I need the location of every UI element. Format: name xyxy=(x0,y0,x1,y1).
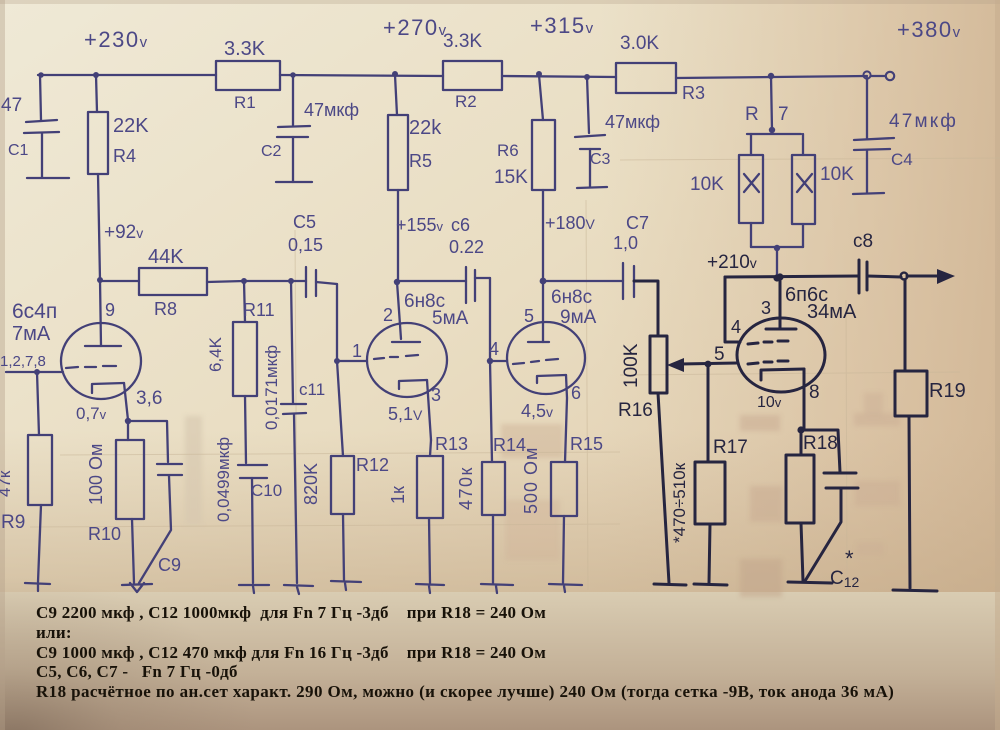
svg-text:0,0499мкф: 0,0499мкф xyxy=(214,437,233,522)
svg-text:+155v с6: +155v с6 xyxy=(396,215,470,235)
svg-text:1: 1 xyxy=(352,341,362,361)
resistor R4 xyxy=(88,75,149,280)
svg-text:R19: R19 xyxy=(929,380,966,402)
svg-text:0,15: 0,15 xyxy=(288,235,323,255)
svg-text:3,6: 3,6 xyxy=(136,388,162,409)
node R8 right xyxy=(241,278,247,284)
svg-text:8: 8 xyxy=(809,382,820,403)
ground R18 C12 xyxy=(788,582,832,583)
U2 cathode pin 3 xyxy=(388,380,441,440)
svg-text:22k: 22k xyxy=(409,117,442,139)
svg-text:5: 5 xyxy=(524,306,534,326)
svg-text:0.22: 0.22 xyxy=(449,237,484,257)
node C3 tap xyxy=(584,74,590,80)
svg-text:34мА: 34мА xyxy=(807,301,857,323)
ground R19 xyxy=(893,590,937,591)
wire U4 grid pin 5 with wiper arrow xyxy=(667,344,737,372)
svg-text:C5: C5 xyxy=(293,212,316,232)
U2 grid pin 1 xyxy=(352,341,418,361)
svg-text:470к: 470к xyxy=(456,466,476,510)
ground R15 xyxy=(549,584,582,592)
svg-text:С9 1000 мкф , С12 470 мкф для: С9 1000 мкф , С12 470 мкф для Fn 16 Гц -… xyxy=(36,643,546,662)
svg-text:6с4п: 6с4п xyxy=(12,300,57,323)
wire U2 plate to C6 xyxy=(397,280,466,282)
node C11 tap xyxy=(288,278,294,284)
resistor R17 xyxy=(695,364,748,583)
capacitor C11 xyxy=(262,281,325,583)
svg-text:С5, С6, С7 - Fn 7 Гц -0дб: С5, С6, С7 - Fn 7 Гц -0дб xyxy=(36,662,238,681)
capacitor C8 xyxy=(853,231,901,293)
svg-text:R17: R17 xyxy=(713,437,748,458)
wire top rail segment 1 xyxy=(38,74,216,76)
wire output arrow xyxy=(907,269,955,284)
U4 plate pin 3 xyxy=(761,273,796,329)
svg-text:0,0171мкф: 0,0171мкф xyxy=(262,345,281,430)
wire U3 plate to C7 xyxy=(543,280,623,282)
node U1 cathode xyxy=(125,418,131,424)
svg-text:R12: R12 xyxy=(356,455,389,475)
capacitor C9 xyxy=(128,421,182,583)
svg-text:10K: 10K xyxy=(690,174,724,195)
capacitor C4 xyxy=(853,78,958,194)
wire top rail segment 2 xyxy=(280,75,443,76)
svg-text:6: 6 xyxy=(571,383,581,403)
svg-text:7: 7 xyxy=(778,104,789,125)
svg-text:4: 4 xyxy=(731,317,741,337)
svg-text:R18 расчётное по ан.сет характ: R18 расчётное по ан.сет характ. 290 Ом, … xyxy=(36,682,894,701)
svg-text:или:: или: xyxy=(36,623,72,642)
ground R14 xyxy=(481,584,513,593)
node C4 tap xyxy=(863,71,870,78)
svg-text:R1: R1 xyxy=(234,93,256,112)
ground R10 C9 xyxy=(122,583,152,592)
svg-text:15K: 15K xyxy=(494,167,528,188)
U1 cathode pins 3,6 xyxy=(76,383,162,423)
svg-text:C9: C9 xyxy=(158,555,181,575)
node R4 tap xyxy=(93,72,99,78)
node U4 cathode xyxy=(797,426,804,433)
svg-text:10v: 10v xyxy=(757,394,782,411)
ground R13 xyxy=(416,584,444,593)
svg-text:9мА: 9мА xyxy=(560,307,597,328)
wire top rail segment 4 xyxy=(676,76,867,78)
capacitor C1 xyxy=(1,75,69,178)
svg-text:R15: R15 xyxy=(570,434,603,454)
svg-text:47к: 47к xyxy=(0,470,14,497)
resistor R9 xyxy=(0,372,52,582)
wire C7 to R16 xyxy=(634,281,658,336)
node R6 tap xyxy=(536,71,542,77)
svg-text:6н8с: 6н8с xyxy=(551,287,592,308)
svg-text:3.3K: 3.3K xyxy=(224,38,266,60)
svg-text:R10: R10 xyxy=(88,524,121,544)
node +210v xyxy=(773,274,780,281)
node R7 tap xyxy=(768,73,774,79)
resistor R11 xyxy=(206,281,275,463)
triode U1 6с4п xyxy=(0,300,141,399)
resistor R6 xyxy=(494,75,555,281)
resistor R19 xyxy=(895,280,966,588)
svg-text:c11: c11 xyxy=(299,380,325,399)
svg-text:R8: R8 xyxy=(154,299,177,319)
svg-text:C3: C3 xyxy=(590,151,611,168)
svg-text:10K: 10K xyxy=(820,164,854,185)
node output xyxy=(901,273,908,280)
svg-text:100 Ом: 100 Ом xyxy=(86,444,106,505)
svg-text:500 Ом: 500 Ом xyxy=(521,447,541,514)
ground C11 xyxy=(284,585,313,594)
resistor R15 xyxy=(521,434,603,583)
svg-text:R11: R11 xyxy=(243,300,275,320)
svg-text:c8: c8 xyxy=(853,231,873,252)
node +92v xyxy=(97,277,103,283)
svg-text:+270v: +270v xyxy=(383,15,448,40)
svg-text:C2: C2 xyxy=(261,143,282,160)
resistor R12 xyxy=(301,361,389,580)
svg-text:R16: R16 xyxy=(618,400,653,421)
svg-text:*470÷510к: *470÷510к xyxy=(670,462,689,543)
svg-text:+180V C7: +180V C7 xyxy=(545,213,649,233)
svg-text:47мкф: 47мкф xyxy=(304,100,359,120)
svg-text:R6: R6 xyxy=(497,141,519,160)
U1 plate pin 9 xyxy=(85,280,121,346)
svg-text:3.3K: 3.3K xyxy=(443,31,482,52)
U2 plate pin 2 xyxy=(383,279,420,342)
wire R8 to C5 xyxy=(244,280,306,282)
svg-text:+315v: +315v xyxy=(530,13,595,38)
svg-text:R: R xyxy=(745,104,759,125)
U3 grid dashes xyxy=(513,359,558,364)
svg-text:C10: C10 xyxy=(251,481,282,500)
resistor R2 xyxy=(443,31,502,111)
capacitor C10 xyxy=(214,437,282,583)
U4 screen grid pin 4 xyxy=(725,277,788,344)
resistor R1 xyxy=(216,38,280,112)
ground R17 xyxy=(694,584,727,585)
svg-text:R5: R5 xyxy=(409,151,432,171)
capacitor C5 xyxy=(288,212,337,297)
capacitor C7 xyxy=(623,263,634,299)
wire U3 grid xyxy=(487,278,507,364)
resistor R14 xyxy=(456,361,526,583)
svg-text:100K: 100K xyxy=(621,343,642,388)
svg-text:С9 2200 мкф , С12 1000мкф для: С9 2200 мкф , С12 1000мкф для Fn 7 Гц -3… xyxy=(36,603,546,622)
svg-text:820K: 820K xyxy=(301,463,321,505)
U3 cathode pin 6 xyxy=(521,375,581,462)
ground R12 xyxy=(331,581,361,590)
svg-text:5,1V: 5,1V xyxy=(388,404,423,424)
triode U3 6н8с xyxy=(507,287,597,394)
U4 cathode pin 8 xyxy=(757,369,820,430)
svg-text:47: 47 xyxy=(1,95,22,116)
U4 control grid dashes xyxy=(748,361,788,364)
svg-text:1,2,7,8: 1,2,7,8 xyxy=(0,353,46,370)
resistor R18 xyxy=(786,430,838,581)
capacitor C12 xyxy=(801,430,860,590)
svg-text:C4: C4 xyxy=(891,150,913,169)
svg-text:1,0: 1,0 xyxy=(613,233,638,253)
svg-text:6,4K: 6,4K xyxy=(206,336,225,372)
svg-text:R18: R18 xyxy=(803,433,838,454)
resistor R8 xyxy=(100,246,244,319)
svg-text:5: 5 xyxy=(714,344,725,365)
svg-text:9: 9 xyxy=(105,300,115,320)
svg-text:47мкф: 47мкф xyxy=(605,112,660,132)
resistor R5 xyxy=(388,71,442,281)
svg-text:C1: C1 xyxy=(8,142,29,159)
svg-text:R4: R4 xyxy=(113,146,136,166)
resistor R10 xyxy=(86,421,144,583)
capacitor C2 xyxy=(261,75,359,182)
node rail left end xyxy=(38,72,44,78)
ground R16 xyxy=(654,584,686,585)
capacitor C3 xyxy=(575,77,660,188)
terminal +380v xyxy=(886,72,894,80)
svg-text:3: 3 xyxy=(761,298,771,318)
svg-text:1к: 1к xyxy=(388,486,408,504)
resistor R7 network xyxy=(690,76,854,278)
svg-text:4: 4 xyxy=(489,339,499,359)
svg-text:0,7v: 0,7v xyxy=(76,404,107,423)
svg-text:+380v: +380v xyxy=(897,17,962,42)
wire top rail segment 3 xyxy=(502,76,616,77)
ground C10 xyxy=(239,585,269,593)
svg-text:7мА: 7мА xyxy=(12,323,51,345)
svg-text:R13: R13 xyxy=(435,434,468,454)
svg-text:47мкф: 47мкф xyxy=(889,111,958,132)
capacitor C6 xyxy=(466,267,490,303)
triode U2 6н8с xyxy=(367,291,469,397)
wire U2 grid xyxy=(334,284,367,364)
U3 plate pin 5 xyxy=(524,278,549,342)
resistor R13 xyxy=(388,434,468,583)
svg-text:+230v: +230v xyxy=(84,27,149,52)
svg-text:22K: 22K xyxy=(113,115,149,137)
svg-text:44K: 44K xyxy=(148,246,184,268)
svg-text:+210v: +210v xyxy=(707,252,757,273)
svg-text:3.0K: 3.0K xyxy=(620,33,659,54)
wire rail to terminal xyxy=(871,75,885,77)
svg-text:5мА: 5мА xyxy=(432,308,469,329)
resistor R3 xyxy=(616,33,705,103)
wire output row xyxy=(725,276,859,277)
svg-text:+92v: +92v xyxy=(104,222,143,243)
svg-text:2: 2 xyxy=(383,305,393,325)
svg-text:R9: R9 xyxy=(1,512,25,533)
svg-text:*: * xyxy=(845,546,854,571)
svg-text:R2: R2 xyxy=(455,92,477,111)
svg-text:3: 3 xyxy=(431,385,441,405)
svg-text:4,5v: 4,5v xyxy=(521,401,553,421)
ground R9 xyxy=(25,583,50,591)
node C2 tap xyxy=(290,72,296,78)
potentiometer R16 xyxy=(618,336,669,583)
pentode U4 6п6с xyxy=(737,284,857,392)
svg-text:R3: R3 xyxy=(682,83,705,103)
U1 grid wire pin 1,2,7,8 xyxy=(6,366,116,375)
